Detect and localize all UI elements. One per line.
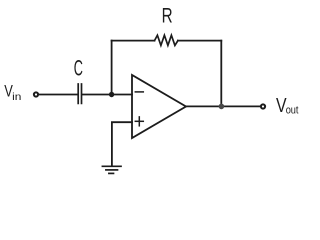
wire: node A to op-amp inverting input — [112, 94, 132, 96]
wire: capacitor to node A — [82, 94, 111, 96]
input terminal Vin — [34, 92, 38, 96]
wire: input terminal to capacitor — [39, 94, 77, 96]
op-amp U1 — [132, 75, 186, 138]
wire: feedback left vertical — [111, 41, 113, 95]
label Vin — [4, 83, 21, 104]
wire: feedback top left horizontal — [112, 40, 155, 42]
wire: op-amp output to output terminal — [186, 105, 260, 107]
resistor R — [155, 35, 178, 45]
node B: output junction — [219, 104, 225, 110]
wire: feedback right vertical — [220, 41, 222, 107]
inverting input marker (-) — [135, 91, 143, 93]
capacitor C — [78, 84, 81, 103]
svg-text:out: out — [286, 105, 299, 117]
svg-text:in: in — [12, 91, 21, 103]
wire: feedback top right horizontal — [178, 40, 221, 42]
svg-text:C: C — [74, 56, 83, 81]
non-inverting input marker (+) — [135, 117, 143, 126]
wire: non-inverting input to ground — [112, 122, 132, 165]
node A: inverting input junction — [109, 92, 114, 97]
ground — [102, 166, 121, 173]
label Vout — [276, 95, 299, 117]
svg-text:R: R — [162, 3, 173, 27]
output terminal Vout — [261, 104, 265, 108]
